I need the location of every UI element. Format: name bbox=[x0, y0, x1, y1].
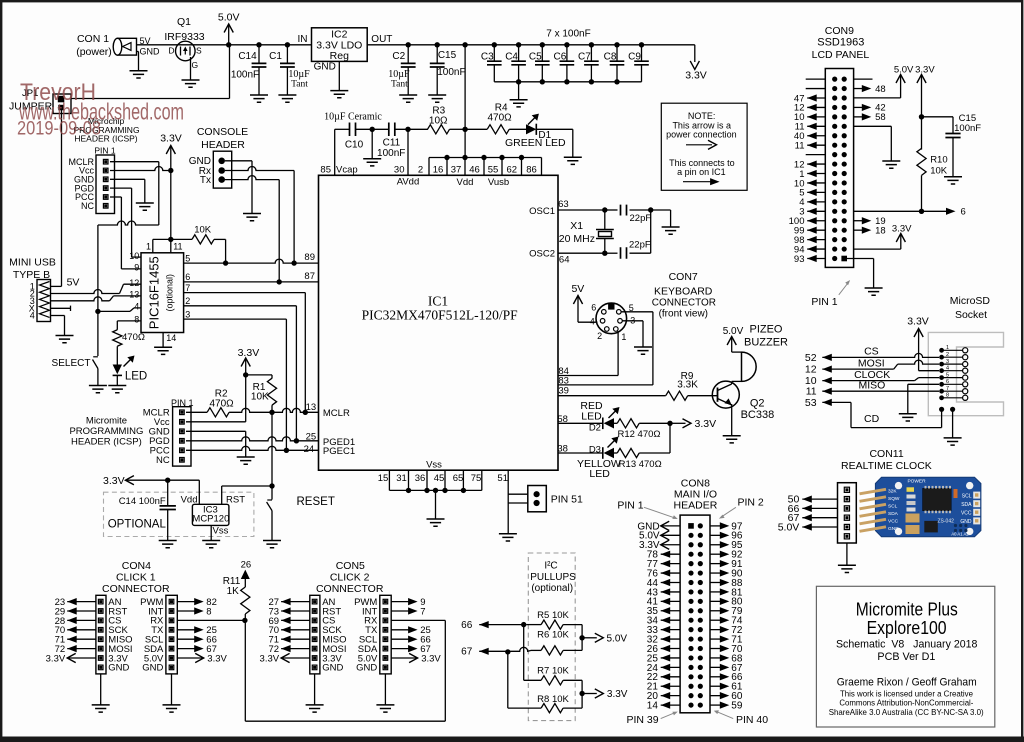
wire IC1 pin 38 to D3 bbox=[558, 452, 603, 454]
svg-text:2: 2 bbox=[185, 296, 190, 306]
svg-text:5.0V: 5.0V bbox=[894, 64, 914, 75]
power arrow 3.3V microSD bbox=[907, 315, 939, 370]
watermark TrevorH bbox=[17, 79, 184, 140]
label IC1 pin 84 bbox=[558, 366, 569, 377]
ground under C14 bbox=[250, 95, 268, 102]
label CON5 GND bbox=[356, 663, 377, 674]
label CON5 RST bbox=[322, 606, 341, 617]
svg-text:R12 470Ω: R12 470Ω bbox=[617, 429, 660, 440]
svg-text:GND: GND bbox=[314, 62, 336, 73]
wire CON9 right row 1 bbox=[854, 78, 873, 80]
capacitor C7 bbox=[578, 45, 599, 82]
svg-text:10µF: 10µF bbox=[288, 69, 310, 80]
wire CD bbox=[822, 399, 941, 428]
label IC1 pin 25 PGED1 bbox=[306, 432, 355, 448]
svg-text:10K: 10K bbox=[194, 225, 212, 236]
wire CON4 left pin 23 bbox=[55, 597, 96, 608]
connector CON7 mini-DIN symbol bbox=[590, 303, 635, 342]
power arrow 3.3V at CON9 row19 bbox=[892, 223, 912, 242]
wire CON5 left pin 72 bbox=[269, 644, 310, 655]
wire CON5 right pin 25 bbox=[391, 625, 431, 636]
power arrow 3.3V optional bbox=[103, 475, 199, 487]
ground under DIN pin3 bbox=[634, 347, 652, 354]
callout PIN 2 CON8 bbox=[719, 497, 764, 519]
wire DIN pin3 to ground bbox=[622, 321, 643, 347]
svg-text:R6 10K: R6 10K bbox=[537, 629, 569, 640]
wire CON9 left pin 4 bbox=[799, 197, 825, 208]
wire CON5 left pin 27 bbox=[269, 597, 310, 608]
svg-text:5: 5 bbox=[185, 253, 190, 263]
label PIC16 pin 5 bbox=[185, 253, 190, 263]
label IC1 pin 89 bbox=[304, 252, 315, 263]
label ICSP1 PCC bbox=[75, 192, 95, 202]
buzzer labels bbox=[744, 324, 788, 349]
wire CON11 5.0V bbox=[778, 521, 838, 533]
label CON4 SCL bbox=[145, 635, 163, 646]
power arrow 5V for CON7 bbox=[571, 283, 584, 322]
capacitor 22pF lower bbox=[605, 239, 651, 258]
wire CON9 right pin 18 bbox=[854, 225, 886, 236]
wire OSC2 bbox=[558, 251, 608, 256]
svg-text:PIN 1: PIN 1 bbox=[617, 500, 643, 512]
label CON4 3.3V bbox=[108, 653, 128, 664]
svg-text:7 x 100nF: 7 x 100nF bbox=[546, 29, 590, 40]
label Vss IC3 bbox=[213, 525, 229, 536]
jumper JP1 labels bbox=[9, 88, 53, 113]
wire CON8 right pin 80 bbox=[710, 597, 743, 608]
svg-text:CLICK 1: CLICK 1 bbox=[116, 572, 156, 584]
wire CON8 right pin 71 bbox=[710, 634, 743, 645]
ground under D1 bbox=[564, 157, 582, 164]
svg-text:MCLR: MCLR bbox=[323, 408, 350, 419]
svg-text:63: 63 bbox=[558, 199, 569, 210]
svg-text:22pF: 22pF bbox=[629, 239, 651, 250]
wire CON9 row19 to 3.3V bbox=[854, 234, 901, 250]
wire R5/R6 common to 5.0V bbox=[579, 625, 627, 651]
svg-text:3.3V: 3.3V bbox=[103, 475, 125, 487]
wire CON8 right pin 68 bbox=[710, 653, 743, 664]
wire IC3 RST to MCLR net bbox=[222, 486, 272, 504]
svg-text:Vcap: Vcap bbox=[336, 164, 358, 175]
svg-text:MCP120: MCP120 bbox=[192, 513, 229, 524]
label IC1 bottom pin 65 bbox=[453, 473, 464, 484]
ground under C2 bbox=[399, 95, 417, 102]
label ICSP2 PGD bbox=[149, 436, 170, 447]
label CON5 5.0V bbox=[358, 653, 378, 664]
label PIC16 pin 1 bbox=[146, 241, 151, 251]
svg-text:PIZEO: PIZEO bbox=[749, 324, 782, 336]
svg-text:I²C: I²C bbox=[544, 560, 557, 571]
header ICSP2 labels bbox=[69, 416, 143, 448]
svg-text:C2: C2 bbox=[392, 51, 405, 62]
wire CON8 left 3.3V bbox=[639, 540, 680, 551]
label ICSP1 PGD bbox=[74, 183, 94, 193]
connector CON1 (power) label bbox=[76, 33, 112, 58]
wire CON8 right pin 96 bbox=[710, 531, 743, 542]
svg-text:8: 8 bbox=[134, 315, 139, 325]
wire CON4 left pin 72 bbox=[55, 644, 96, 655]
wire CON5 left GND stem bbox=[314, 674, 316, 705]
svg-text:11: 11 bbox=[173, 242, 182, 252]
switch RESET bbox=[267, 496, 335, 540]
ground under SELECT bbox=[89, 386, 107, 393]
label IC1 pin 39 bbox=[558, 386, 569, 397]
wire CLOCK bbox=[822, 369, 939, 384]
wire CON9 right pin 58 bbox=[854, 112, 886, 123]
svg-text:Commons Attribution-NonCommerc: Commons Attribution-NonCommercial- bbox=[839, 698, 973, 708]
svg-text:S: S bbox=[196, 46, 202, 56]
svg-text:470Ω: 470Ω bbox=[210, 398, 235, 409]
capacitor C8 bbox=[604, 45, 625, 82]
label CON4 GND bbox=[142, 663, 163, 674]
wire CON11 67 bbox=[788, 512, 838, 524]
label 11 MISO bbox=[806, 385, 817, 397]
wire R11 to CLICK RX ring bbox=[242, 614, 445, 721]
wire CON4 left GND stem bbox=[100, 674, 102, 705]
svg-text:Vss: Vss bbox=[426, 459, 442, 470]
label CON5 MOSI bbox=[322, 644, 346, 655]
svg-text:GND: GND bbox=[888, 526, 899, 532]
svg-text:CONSOLE: CONSOLE bbox=[197, 126, 248, 138]
svg-text:BUZZER: BUZZER bbox=[744, 337, 788, 349]
ground under IC2 bbox=[330, 91, 348, 98]
label IC1 bottom pin 36 bbox=[415, 473, 426, 484]
svg-text:3.3V: 3.3V bbox=[685, 70, 707, 82]
regulator IC2 box bbox=[312, 28, 368, 62]
wire CON8 right pin 90 bbox=[710, 568, 743, 579]
header ICSP1 pins bbox=[103, 159, 108, 208]
wire Vss bus to ground bbox=[435, 490, 437, 519]
capacitor C9 bbox=[628, 45, 649, 82]
wire PIC16 pin 8 to LED resistor bbox=[117, 320, 141, 322]
svg-text:14: 14 bbox=[166, 333, 176, 343]
wire R12 to 3.3V bbox=[639, 418, 716, 430]
connector CON4 right header pins bbox=[169, 599, 174, 669]
wire PIC16 pin 14 to ground bbox=[163, 333, 176, 348]
svg-text:4: 4 bbox=[30, 311, 35, 321]
label IC1 top pin 62 bbox=[507, 164, 518, 175]
resistor R7 bbox=[537, 666, 582, 685]
label CON4 GND bbox=[108, 663, 129, 674]
title text authors bbox=[837, 677, 977, 689]
svg-text:8: 8 bbox=[206, 606, 211, 617]
svg-text:R10: R10 bbox=[930, 154, 947, 165]
svg-text:86: 86 bbox=[526, 164, 537, 175]
label PIC16 pin 13 bbox=[129, 290, 139, 300]
connector CON4 left header pins bbox=[98, 599, 103, 669]
wire CON5 left pin 71 bbox=[269, 635, 310, 646]
wire CON8 left pin 44 bbox=[647, 578, 680, 589]
label ICSP2 NC bbox=[156, 455, 170, 466]
svg-text:MOSI: MOSI bbox=[858, 358, 885, 370]
svg-text:VCC: VCC bbox=[888, 518, 899, 524]
label IC1 bottom pin 45 bbox=[434, 473, 445, 484]
svg-text:10: 10 bbox=[129, 251, 139, 261]
svg-text:10Ω: 10Ω bbox=[429, 116, 448, 127]
power arrow 5.0V at CON9 bbox=[894, 64, 914, 83]
wire PIC16 pin 5 to IC1 pin 89 bbox=[184, 259, 319, 266]
wire ICSP2 PGD to IC1 PGED1 bbox=[186, 437, 319, 444]
label IC1 pin 38 bbox=[557, 444, 568, 455]
svg-text:LED: LED bbox=[589, 468, 610, 480]
label IC1 top pin 86 bbox=[526, 164, 537, 175]
svg-text:4: 4 bbox=[946, 366, 949, 372]
wire CON4 left 3.3V bbox=[46, 653, 96, 664]
svg-text:PIN 1: PIN 1 bbox=[811, 296, 837, 308]
svg-text:GND: GND bbox=[140, 47, 161, 57]
svg-text:100nF: 100nF bbox=[437, 67, 465, 78]
wire CON8 left pin 21 bbox=[647, 682, 680, 693]
wire SDA down to R8 bbox=[508, 652, 541, 708]
label IC1 top pin 55 bbox=[488, 164, 499, 175]
wire 66 SCL bbox=[461, 620, 527, 631]
svg-text:LED: LED bbox=[125, 371, 147, 383]
connector CON11 box bbox=[838, 483, 857, 543]
capacitor C1 bbox=[269, 45, 310, 95]
IC IC3 MCP120 box bbox=[192, 504, 229, 525]
label ICSP1 GND bbox=[74, 175, 95, 185]
callout PIN 39 CON8 bbox=[626, 712, 677, 726]
capacitor 22pF upper bbox=[605, 205, 654, 224]
wire CON9 pin48-row to 5.0V bbox=[854, 75, 901, 98]
IC1 name text bbox=[362, 294, 519, 323]
svg-text:R7 10K: R7 10K bbox=[537, 666, 569, 677]
svg-text:AVdd: AVdd bbox=[397, 176, 420, 187]
label CON5 CS bbox=[322, 616, 335, 627]
label RST IC3 bbox=[226, 494, 245, 505]
svg-text:GND: GND bbox=[322, 663, 343, 674]
svg-text:POWER: POWER bbox=[907, 478, 926, 484]
wire ICSP2 PCC to IC1 PGEC1 bbox=[186, 446, 319, 453]
wire CON8 left pin 25 bbox=[647, 653, 680, 664]
label IN bbox=[298, 34, 308, 45]
wire CON4 left pin 71 bbox=[55, 635, 96, 646]
svg-text:SSD1963: SSD1963 bbox=[817, 36, 864, 48]
svg-text:D: D bbox=[168, 46, 174, 56]
label CON4 RST bbox=[108, 606, 127, 617]
svg-text:48: 48 bbox=[875, 84, 886, 95]
svg-text:2019-09-08: 2019-09-08 bbox=[17, 118, 101, 140]
label USB pin 3 bbox=[30, 296, 35, 306]
svg-text:89: 89 bbox=[304, 252, 315, 263]
wire CON8 right pin 66 bbox=[710, 672, 743, 683]
note box bbox=[661, 103, 747, 190]
svg-text:100nF: 100nF bbox=[954, 123, 981, 134]
wire CON9 left pin 12 bbox=[794, 103, 825, 114]
wire CON8 right pin 92 bbox=[710, 550, 743, 561]
ground under C10/C11 bbox=[363, 159, 381, 166]
svg-text:4: 4 bbox=[134, 302, 139, 312]
svg-text:GND: GND bbox=[108, 663, 129, 674]
wire CON5 left pin 73 bbox=[269, 606, 310, 617]
svg-text:1: 1 bbox=[946, 345, 949, 351]
label 85 Vcap bbox=[320, 164, 357, 175]
wire Vcap to IC1 pin 85 bbox=[334, 129, 336, 175]
label IC1 pin 87 bbox=[304, 271, 315, 282]
svg-text:GND: GND bbox=[356, 663, 377, 674]
resistor 470 ohm USB LED bbox=[113, 321, 145, 365]
connector CON4 right header box bbox=[166, 595, 177, 674]
svg-text:G: G bbox=[191, 60, 198, 70]
svg-text:64: 64 bbox=[559, 254, 570, 265]
wire CONSOLE Tx to IC1 pin 87 net bbox=[225, 176, 279, 282]
connector CON7 labels bbox=[652, 271, 716, 319]
label USB pin 1 bbox=[30, 282, 35, 292]
label CON4 SDA bbox=[144, 644, 164, 655]
microSD socket outline bbox=[928, 332, 1003, 415]
label ICSP1 Vcc bbox=[79, 166, 95, 176]
wire ICSP1 Vcc to 3.3V bbox=[110, 167, 171, 171]
header CONSOLE labels bbox=[197, 126, 248, 151]
svg-text:(optional): (optional) bbox=[531, 583, 573, 594]
svg-text:53: 53 bbox=[805, 397, 817, 409]
svg-text:HEADER: HEADER bbox=[674, 499, 718, 511]
wire MOSI bbox=[822, 358, 939, 373]
ground under IC3 bbox=[202, 541, 220, 548]
wire 5V to DIN pin4 bbox=[578, 321, 598, 323]
connector CON11 labels bbox=[841, 448, 932, 472]
wire PIC16 pin 2 to PGD net bbox=[184, 306, 297, 441]
svg-text:SQW: SQW bbox=[888, 496, 900, 502]
wire CON8 left pin 34 bbox=[647, 616, 680, 627]
crystal X1 bbox=[559, 210, 614, 253]
wire CON8 right pin 91 bbox=[710, 559, 743, 570]
label PIC16 pin 12 bbox=[129, 278, 139, 288]
svg-text:Q2: Q2 bbox=[750, 397, 765, 409]
resistor R12 bbox=[614, 419, 661, 440]
svg-text:3.3V: 3.3V bbox=[915, 64, 935, 75]
svg-text:MINI USB: MINI USB bbox=[9, 257, 56, 269]
wire CON8 left pin 33 bbox=[647, 625, 680, 636]
svg-text:PIN 39: PIN 39 bbox=[626, 714, 658, 726]
svg-text:2: 2 bbox=[946, 352, 949, 358]
wire CON8 left pin 26 bbox=[647, 644, 680, 655]
connector CON9 pins bbox=[832, 77, 847, 262]
wire 3.3V rail from IC2 OUT to right end bbox=[367, 42, 695, 47]
label OSC1 63 bbox=[529, 199, 569, 217]
wire IC1 top pin stub x=429 bbox=[428, 158, 430, 176]
svg-text:6: 6 bbox=[185, 272, 190, 282]
label OSC2 64 bbox=[529, 249, 569, 266]
connector CON9 box bbox=[825, 69, 853, 268]
svg-text:SDA: SDA bbox=[888, 511, 899, 517]
svg-text:7: 7 bbox=[185, 283, 190, 293]
label 7 x 100nF bbox=[546, 29, 590, 40]
svg-text:51: 51 bbox=[497, 473, 508, 484]
svg-text:100nF: 100nF bbox=[377, 148, 405, 159]
svg-text:18: 18 bbox=[875, 225, 886, 236]
wire CON9 row15 to node 6 bbox=[854, 207, 966, 218]
wire CON9 left pin 99 bbox=[794, 225, 825, 236]
RTC module ZS-042 photo bbox=[860, 477, 981, 537]
connector CON4 left header box bbox=[96, 595, 106, 674]
connector CON11 pins bbox=[844, 487, 849, 539]
wire Q2 emitter to ground bbox=[731, 404, 733, 436]
ground under cap bus bbox=[510, 100, 528, 107]
wire CON5 right pin 67 bbox=[391, 644, 431, 655]
label 26 bbox=[241, 560, 252, 571]
wire CON8 right pin 81 bbox=[710, 587, 743, 598]
wire CON9 left pin 98 bbox=[794, 235, 825, 246]
label 10 CLOCK bbox=[805, 375, 817, 387]
label ICSP2 GND bbox=[149, 427, 170, 438]
svg-text:OPTIONAL: OPTIONAL bbox=[108, 518, 167, 530]
label USB pin 4 bbox=[30, 311, 35, 321]
svg-text:Vss: Vss bbox=[213, 525, 229, 536]
label 52 CS bbox=[805, 352, 817, 364]
label PIC16 pin 7 bbox=[185, 283, 190, 293]
wire OSC1 bbox=[558, 207, 608, 212]
label ICSP2 MCLR bbox=[143, 408, 170, 419]
ground microSD shield bbox=[944, 438, 962, 445]
wire CON4 left pin 28 bbox=[55, 616, 96, 627]
label PIC16 pin 6 bbox=[185, 272, 190, 282]
capacitor C11 bbox=[377, 123, 405, 160]
label 12 MOSI bbox=[805, 364, 817, 376]
connector CON8 pins bbox=[688, 523, 703, 708]
label 53 CD bbox=[805, 397, 817, 409]
ground CON4 right bbox=[163, 705, 181, 712]
wire IC3 Vdd lead bbox=[198, 480, 200, 504]
svg-text:Vdd: Vdd bbox=[457, 177, 474, 188]
svg-text:5.0V: 5.0V bbox=[778, 521, 800, 533]
wire CON9 left pin 93 bbox=[794, 254, 825, 265]
resistor R3 bbox=[428, 105, 450, 134]
label IC1 top pin 16 bbox=[433, 164, 444, 175]
label CON4 5.0V bbox=[144, 653, 164, 664]
label CON5 TX bbox=[365, 625, 378, 636]
wire USB pin4 to ground bbox=[51, 316, 65, 336]
wire IC1 top pin stub x=521.5 bbox=[521, 158, 523, 176]
wire CON8 right pin 60 bbox=[710, 691, 743, 702]
svg-text:Tant: Tant bbox=[391, 80, 408, 90]
ground under C1 bbox=[278, 95, 296, 102]
svg-text:CLICK 2: CLICK 2 bbox=[330, 572, 370, 584]
svg-text:Micromite Plus: Micromite Plus bbox=[856, 600, 958, 620]
svg-text:1K: 1K bbox=[227, 586, 240, 597]
title text PCB ver bbox=[877, 651, 935, 663]
wire ICSP2 GND to ground bbox=[186, 431, 246, 457]
svg-text:93: 93 bbox=[794, 254, 805, 265]
svg-text:3.3K: 3.3K bbox=[677, 379, 698, 390]
wire CON4 right pin 25 bbox=[177, 625, 217, 636]
wire CON11 50 bbox=[788, 494, 838, 506]
svg-text:16: 16 bbox=[433, 164, 444, 175]
wire IC1 pin 58 to D2 bbox=[558, 422, 603, 424]
svg-text:Vdd: Vdd bbox=[181, 494, 198, 505]
ground CON5 left bbox=[306, 705, 324, 712]
title text license 1 bbox=[840, 688, 973, 698]
svg-text:OSC1: OSC1 bbox=[529, 206, 555, 217]
wire CON4 right GND stem bbox=[171, 674, 173, 705]
svg-text:3.3V: 3.3V bbox=[207, 653, 227, 664]
label CON5 PWM bbox=[354, 597, 377, 608]
capacitor C4 bbox=[505, 45, 526, 82]
wire D1 cathode to ground bbox=[536, 129, 573, 157]
wire DIN pin5 to IC1 pin 83 bbox=[558, 312, 653, 385]
wire CON9 left pin 11 bbox=[795, 122, 826, 133]
svg-text:OUT: OUT bbox=[371, 34, 392, 45]
optional dashed box bbox=[104, 492, 254, 536]
ground under CON11 bbox=[838, 565, 856, 572]
label CON4 INT bbox=[148, 606, 164, 617]
svg-text:12: 12 bbox=[129, 278, 139, 288]
svg-text:9: 9 bbox=[134, 263, 139, 273]
label OUT bbox=[371, 34, 392, 45]
wire CON5 right pin 66 bbox=[391, 635, 431, 646]
svg-text:3.3V: 3.3V bbox=[892, 223, 912, 234]
svg-text:15: 15 bbox=[378, 473, 389, 484]
